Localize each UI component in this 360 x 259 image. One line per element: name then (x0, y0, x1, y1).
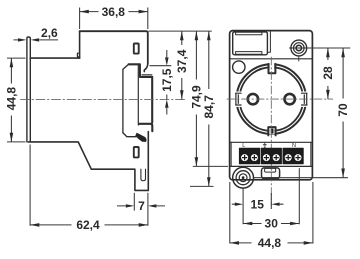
front view shelf bottom line (230, 165, 313, 167)
dim 62,4 extension lines (30, 145, 148, 226)
dim 2,6 arrows (18, 38, 27, 41)
dim 30 arrows (243, 222, 252, 226)
front view socket rim inner (239, 67, 303, 131)
side view lower right edge (147, 132, 149, 191)
front view horizontal centerline (227, 98, 333, 100)
svg-text:44,8: 44,8 (258, 236, 282, 250)
front view body (230, 31, 313, 180)
side view foot notch (141, 169, 146, 181)
side view chamfer (123, 64, 129, 133)
front view pin hole left (248, 94, 258, 104)
dim 36,8 arrows (80, 10, 89, 14)
side view left step edge (79, 31, 81, 58)
dim 7 shafts (117, 205, 165, 207)
side view channel outer wall (151, 77, 153, 123)
dim 84,7 bottom extension (190, 185, 214, 187)
front view screw outer (291, 40, 307, 56)
side view top surface (30, 57, 79, 59)
terminal label earth symbol (263, 142, 266, 147)
svg-text:17,5: 17,5 (160, 68, 174, 92)
dim 28 line (327, 48, 329, 99)
front view clip left details (236, 93, 242, 105)
side view top vent slot (134, 44, 139, 54)
front view clip right details (302, 93, 308, 105)
dim 62,4 arrows (30, 223, 39, 227)
side view flange (left thin wall) (27, 37, 30, 142)
front view bottom notch inner (271, 129, 274, 134)
dim 44,8 left line (10, 58, 12, 142)
release tab (262, 168, 280, 179)
terminal screws (241, 154, 302, 162)
svg-text:15: 15 (251, 197, 265, 211)
svg-text:62,4: 62,4 (76, 218, 100, 232)
side view top edge (80, 31, 148, 63)
dim 7 extension line (133, 193, 135, 211)
front view small circle (233, 61, 245, 73)
dim 36,8 line (80, 11, 148, 13)
front view screw slot (296, 45, 301, 50)
svg-text:2,6: 2,6 (41, 26, 58, 40)
dim 17,5 line and shafts (166, 50, 168, 115)
terminal screw crosses (242, 155, 301, 160)
dim 30 line (243, 223, 299, 225)
dim 70 arrows (341, 48, 345, 57)
front view shelf side walls (231, 142, 311, 166)
side view notch tab (77, 53, 79, 57)
dim 37,4 line (181, 31, 183, 99)
svg-text:N: N (292, 143, 296, 149)
release tab inner (265, 168, 276, 172)
dim 44,8 left arrows (10, 58, 14, 67)
svg-text:L: L (242, 143, 245, 149)
front view divider line (230, 58, 313, 60)
dim 62,4 line (30, 224, 148, 226)
bottom notch mask (269, 128, 274, 134)
dim 44,8 bottom line (230, 242, 313, 244)
dim 36,8 extension lines (80, 8, 148, 30)
side view channel back wall (137, 65, 139, 125)
dim 44,8 left extension lines (7, 58, 26, 142)
svg-text:36,8: 36,8 (102, 5, 126, 19)
svg-text:70: 70 (336, 103, 350, 117)
terminal block middle (261, 148, 281, 164)
side view claw inner lip (142, 74, 152, 76)
front view clip cutout right (299, 92, 308, 107)
dim 74,9 bottom extension (193, 165, 228, 167)
dim 2,6 shafts (14, 39, 59, 41)
terminal block right (283, 148, 303, 164)
screw center extension (309, 47, 351, 49)
side view rail claw top (129, 64, 153, 77)
front view top keying notch (269, 64, 276, 73)
front view shelf top line (230, 141, 313, 143)
side view bottom chamfer (123, 133, 139, 137)
top notch mask (270, 60, 275, 72)
svg-text:84,7: 84,7 (202, 95, 216, 119)
dim 70 line (342, 48, 344, 178)
dim 44,8 bottom extensions (230, 182, 313, 244)
dim 84,7 line (208, 31, 210, 186)
dim 15 arrows (235, 203, 243, 206)
front view vertical centerline (270, 57, 272, 205)
lug vertical extension (243, 188, 271, 224)
dim 28 arrows (326, 48, 330, 57)
front view clip cutout left (235, 92, 244, 107)
side view body bottom and diagonal (28, 142, 148, 191)
mounting lug circles (233, 167, 254, 188)
front view label field right step (267, 32, 270, 53)
svg-text:44,8: 44,8 (4, 87, 18, 111)
front view label field (233, 32, 268, 55)
dim 84,7 arrows (207, 31, 211, 40)
dim 15 shafts (232, 203, 284, 205)
front view socket rim outer (236, 64, 306, 134)
lug center extension (254, 177, 348, 179)
dim 30 right extension (298, 168, 300, 224)
side view bottom vent slot (134, 147, 139, 157)
dim 74,9 arrows (195, 31, 199, 40)
dim 7 arrows (126, 204, 135, 207)
svg-text:7: 7 (138, 199, 145, 213)
side view centerline (21, 98, 187, 100)
front view screw middle (294, 43, 305, 54)
dim 17,5 arrows (165, 57, 169, 65)
top edge extension (149, 30, 212, 32)
dim 17,5 extension line (150, 65, 172, 67)
side view right edge curve (144, 63, 148, 71)
svg-text:37,4: 37,4 (175, 49, 189, 73)
front view screw center ticks (289, 48, 308, 61)
front view label field bottom strip (236, 52, 262, 55)
front view bottom keying notch (268, 127, 275, 135)
svg-text:28: 28 (321, 66, 335, 80)
dim 74,9 line (195, 31, 197, 166)
dim 44,8 bottom arrows (230, 241, 239, 245)
side view latch beak (136, 133, 146, 141)
side view bottom claw lip (139, 124, 152, 131)
front view label field top strip (236, 32, 262, 35)
front view pin hole right (285, 94, 295, 104)
terminal block left (239, 148, 259, 164)
svg-text:30: 30 (265, 217, 279, 231)
dim 37,4 arrows (180, 31, 184, 40)
